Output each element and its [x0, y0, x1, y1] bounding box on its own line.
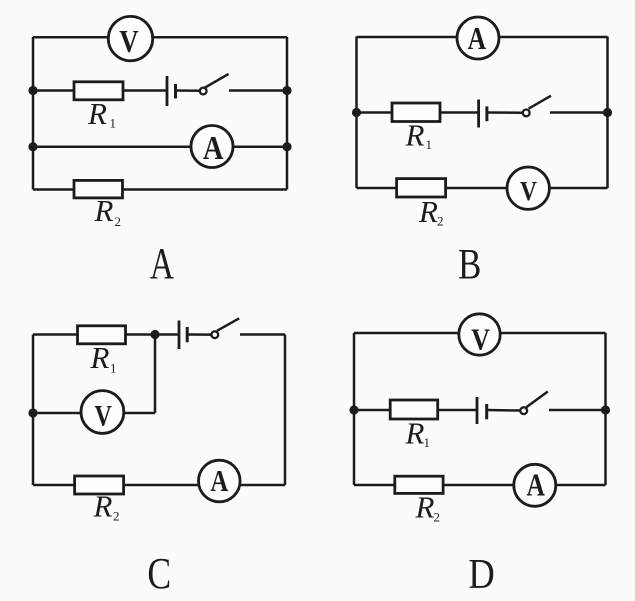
- wire: B battery to switch: [487, 111, 523, 114]
- svg-text:2: 2: [437, 214, 444, 229]
- battery cell: B short plate (-): [485, 106, 488, 121]
- wire: B switch to right node: [550, 111, 608, 114]
- resistor R2 (B): [397, 179, 446, 197]
- battery cell: B long plate (+): [477, 100, 480, 128]
- resistor R2 (C): [75, 476, 124, 494]
- node: A right ammeter junction: [282, 142, 291, 151]
- wire: D left vertical: [353, 333, 356, 485]
- svg-text:A: A: [526, 468, 545, 503]
- svg-text:A: A: [210, 464, 229, 498]
- svg-text:R: R: [90, 340, 110, 375]
- svg-text:R: R: [94, 193, 114, 228]
- wire: A battery to switch: [176, 89, 200, 92]
- svg-text:R: R: [93, 489, 113, 524]
- svg-text:R: R: [405, 416, 425, 451]
- wire: D bottom branch: [354, 484, 606, 487]
- node: A left R1 junction: [28, 86, 37, 95]
- switch S lever (A): [205, 74, 229, 88]
- wire: C top branch left: [33, 333, 179, 336]
- wire: C voltmeter branch: [33, 412, 155, 415]
- wire: B top branch: [357, 36, 608, 39]
- wire: B middle branch left: [357, 111, 479, 114]
- resistor R2 (D): [395, 476, 443, 493]
- wire: D battery to switch: [487, 409, 521, 412]
- ammeter A (circuit C): [199, 460, 241, 502]
- svg-text:C: C: [147, 548, 171, 597]
- node: B right junction: [603, 108, 612, 117]
- battery cell: A short plate (-): [174, 84, 177, 99]
- svg-text:1: 1: [110, 361, 117, 376]
- svg-text:D: D: [468, 550, 494, 597]
- wire: C switch to right corner: [240, 333, 285, 336]
- node: A right R1 junction: [282, 86, 291, 95]
- node: D left junction: [349, 405, 358, 414]
- svg-text:2: 2: [434, 510, 441, 525]
- svg-text:1: 1: [426, 137, 433, 152]
- voltmeter V (circuit B): [507, 167, 549, 209]
- switch S pivot circle (A): [200, 88, 207, 95]
- wire: B right vertical: [606, 37, 609, 189]
- switch S lever (C): [217, 318, 239, 331]
- voltmeter V (circuit C): [81, 391, 124, 434]
- resistor R1 (B): [392, 103, 440, 122]
- wire: D switch to right node: [549, 409, 606, 412]
- voltmeter V (circuit D): [459, 314, 500, 355]
- switch S pivot circle (C): [211, 331, 218, 338]
- wire: C battery to switch: [187, 333, 211, 336]
- resistor R2 (A): [74, 180, 123, 198]
- svg-text:B: B: [458, 241, 481, 288]
- svg-text:2: 2: [113, 509, 120, 524]
- svg-text:R: R: [415, 490, 435, 525]
- svg-text:2: 2: [115, 214, 122, 229]
- wire: D middle branch left: [354, 409, 477, 412]
- ammeter A (circuit D): [514, 464, 556, 506]
- svg-text:1: 1: [424, 435, 431, 450]
- svg-text:V: V: [471, 322, 490, 357]
- svg-text:V: V: [119, 25, 138, 60]
- switch S pivot circle (B): [523, 110, 530, 117]
- node: A left ammeter junction: [28, 142, 37, 151]
- node: C top junction: [150, 330, 159, 339]
- wire: D top branch: [354, 332, 606, 335]
- svg-text:A: A: [203, 129, 224, 167]
- ammeter A (circuit A): [191, 126, 233, 168]
- svg-text:A: A: [468, 21, 487, 56]
- wire: C left vertical: [32, 335, 35, 486]
- voltmeter V (circuit A): [108, 16, 152, 60]
- battery cell: C short plate (-): [186, 327, 189, 342]
- wire: A ammeter branch: [33, 145, 287, 148]
- wire: A right vertical: [286, 37, 289, 190]
- battery cell: D long plate (+): [476, 397, 479, 424]
- resistor R1 (C): [78, 326, 126, 344]
- wire: C bottom branch: [33, 484, 285, 487]
- resistor R1 (D): [390, 400, 438, 419]
- wire: B left vertical: [355, 37, 358, 189]
- svg-text:1: 1: [110, 116, 117, 131]
- svg-text:A: A: [150, 240, 174, 288]
- wire: B bottom branch: [357, 187, 608, 190]
- switch S lever (B): [529, 96, 551, 109]
- battery cell: D short plate (-): [485, 404, 488, 419]
- wire: D right vertical: [604, 333, 607, 485]
- node: C left voltmeter junction: [28, 408, 37, 417]
- battery cell: C long plate (+): [178, 321, 181, 350]
- resistor R1 (A): [74, 82, 123, 100]
- svg-text:R: R: [405, 118, 425, 153]
- wire: A bottom branch: [33, 188, 287, 191]
- svg-text:V: V: [520, 177, 537, 207]
- wire: C voltmeter branch vertical to top: [154, 335, 157, 414]
- switch S lever (D): [526, 392, 548, 408]
- battery cell: A long plate (+): [166, 76, 169, 106]
- node: D right junction: [601, 405, 610, 414]
- node: B left junction: [352, 108, 361, 117]
- switch S pivot circle (D): [520, 407, 527, 414]
- svg-text:V: V: [95, 399, 113, 432]
- svg-text:R: R: [418, 194, 438, 229]
- wire: C right vertical: [284, 335, 287, 486]
- svg-text:R: R: [87, 96, 107, 131]
- wire: A left vertical: [32, 37, 35, 190]
- wire: A R1/battery branch left: [33, 89, 167, 92]
- wire: A top branch: [33, 36, 287, 39]
- wire: A switch to right node: [229, 89, 287, 92]
- ammeter A (circuit B): [457, 17, 499, 59]
